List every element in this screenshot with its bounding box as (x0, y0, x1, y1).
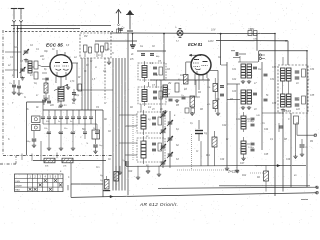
svg-text:C46: C46 (286, 158, 291, 161)
svg-text:B1: B1 (146, 136, 148, 138)
svg-text:2M: 2M (167, 83, 171, 85)
svg-text:G: G (24, 97, 26, 99)
svg-text:FM: FM (84, 36, 87, 38)
svg-text:ECC 85: ECC 85 (46, 43, 63, 49)
svg-text:C32: C32 (272, 67, 277, 69)
svg-text:C31: C31 (270, 79, 275, 81)
svg-text:Cw: Cw (258, 69, 262, 71)
svg-text:Ct: Ct (196, 150, 199, 153)
svg-text:Cf: Cf (104, 103, 107, 105)
svg-text:C33: C33 (272, 103, 277, 105)
svg-text:GRAM: GRAM (15, 184, 22, 187)
svg-text:Cm: Cm (96, 167, 100, 169)
svg-text:220p: 220p (73, 95, 80, 97)
svg-text:Tr: Tr (112, 53, 114, 55)
svg-text:110V: 110V (208, 40, 214, 43)
svg-text:174kp: 174kp (248, 120, 255, 123)
svg-text:10V: 10V (211, 29, 216, 32)
svg-text:ECH 81: ECH 81 (188, 42, 203, 47)
svg-text:220: 220 (39, 56, 45, 58)
svg-text:PS 15: PS 15 (284, 109, 292, 113)
svg-text:C47: C47 (240, 162, 245, 165)
svg-text:Rf: Rf (78, 77, 81, 79)
svg-text:R10: R10 (128, 171, 133, 173)
svg-text:C23: C23 (232, 91, 237, 93)
svg-text:C34: C34 (310, 68, 315, 71)
svg-text:C41: C41 (236, 118, 241, 121)
svg-text:Lr: Lr (36, 95, 38, 97)
svg-text:Ct: Ct (90, 60, 93, 63)
svg-text:25n: 25n (45, 133, 51, 135)
svg-text:C49: C49 (220, 158, 225, 161)
svg-text:Fr: Fr (156, 75, 158, 77)
svg-text:C22: C22 (232, 79, 237, 81)
svg-text:C82: C82 (250, 29, 255, 31)
svg-text:C21: C21 (232, 69, 237, 71)
svg-text:C35: C35 (310, 95, 315, 97)
svg-text:R12: R12 (242, 175, 247, 177)
svg-text:RAD: RAD (15, 189, 20, 192)
svg-text:AR 612 Orion/I.: AR 612 Orion/I. (139, 202, 178, 208)
svg-text:C44: C44 (264, 128, 269, 131)
svg-text:C42: C42 (222, 124, 227, 127)
svg-text:Rt: Rt (226, 138, 229, 141)
svg-text:URH: URH (15, 181, 20, 183)
svg-text:C45: C45 (264, 153, 269, 156)
svg-text:220: 220 (49, 105, 55, 107)
svg-text:174kp: 174kp (248, 146, 255, 149)
